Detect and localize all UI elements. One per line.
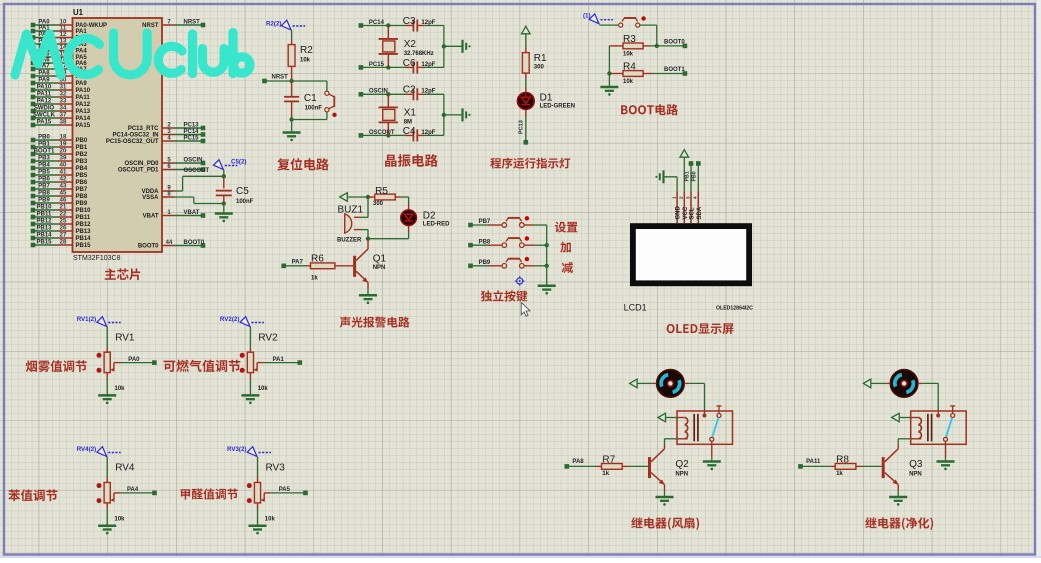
svg-text:44: 44 [166, 240, 173, 246]
wire net PA1 [264, 357, 302, 365]
svg-text:BOOT0: BOOT0 [138, 244, 159, 250]
wire emitter to ground [664, 485, 666, 497]
svg-text:NPN: NPN [909, 471, 922, 477]
svg-text:11: 11 [60, 26, 67, 32]
potentiometer RV1 10k [97, 327, 135, 395]
svg-text:LCD1: LCD1 [624, 303, 647, 313]
svg-text:10k: 10k [300, 58, 311, 64]
wire buttons common [545, 225, 549, 286]
svg-text:34: 34 [60, 106, 67, 112]
svg-text:2: 2 [679, 196, 684, 199]
label 可燃气值调节 [164, 360, 241, 372]
wire net PB9 [468, 260, 491, 268]
node NRST [262, 75, 327, 84]
svg-text:10k: 10k [258, 386, 269, 392]
wire to ground [291, 120, 293, 133]
svg-text:SDA: SDA [697, 206, 703, 219]
U1 right pin OSCOUT_PD1 (6) net OSCOUT [118, 164, 210, 174]
wire net PB8 to U1 pin 45 [31, 191, 88, 201]
svg-text:U1: U1 [73, 8, 84, 17]
LCD1 pin 3 SCL [685, 192, 695, 224]
svg-text:GND: GND [676, 206, 682, 220]
svg-text:PA7: PA7 [292, 259, 304, 265]
transistor Q3 NPN [882, 449, 923, 485]
wire net PB1 to U1 pin 19 [31, 142, 88, 152]
U1 right pin PC15-OSC32_OUT (4) net PC15 [106, 135, 205, 145]
wire VCC [683, 157, 685, 191]
svg-text:39: 39 [60, 156, 67, 162]
label 烟雾值调节 [26, 360, 87, 372]
svg-text:10k: 10k [623, 52, 634, 58]
svg-text:BUZ1: BUZ1 [338, 205, 364, 216]
svg-text:PA1: PA1 [273, 357, 285, 363]
push button PB9 [488, 257, 547, 268]
LCD1 pin 1 GND [672, 192, 682, 224]
buzzer BUZ1 [337, 205, 368, 244]
svg-text:8M: 8M [404, 119, 412, 125]
svg-text:12pF: 12pF [421, 130, 435, 136]
label OLED display [667, 323, 734, 334]
wire R3/R4 common to ground [608, 46, 610, 87]
wire R5 to D2 [408, 197, 410, 210]
wire relay common to ground [711, 441, 713, 461]
label 甲醛值调节 [181, 489, 238, 500]
svg-text:1k: 1k [602, 471, 609, 477]
svg-text:C3: C3 [403, 16, 416, 27]
ground relay [937, 462, 955, 471]
label 苯值调节 [8, 489, 57, 501]
svg-text:20: 20 [60, 149, 67, 155]
relay Q3 contacts [936, 406, 955, 441]
svg-text:C2: C2 [403, 85, 416, 96]
ground Q1 [359, 295, 377, 304]
svg-text:R8: R8 [836, 454, 849, 465]
svg-text:PA8: PA8 [38, 71, 50, 77]
svg-text:SWCLK: SWCLK [33, 113, 56, 119]
svg-text:PA4: PA4 [127, 487, 139, 493]
svg-text:10k: 10k [265, 516, 276, 522]
svg-text:PB0: PB0 [692, 171, 698, 181]
svg-text:PB8: PB8 [76, 194, 88, 200]
wire net PB13 to U1 pin 26 [31, 226, 91, 236]
svg-text:42: 42 [60, 177, 67, 183]
power arrow alarm [340, 193, 348, 202]
svg-text:(1): (1) [583, 13, 591, 20]
wire net PA4 to U1 pin 14 [31, 45, 88, 55]
svg-text:PB7: PB7 [38, 184, 50, 190]
capacitor C6 12pF [403, 58, 444, 74]
svg-text:PA9: PA9 [38, 78, 50, 84]
svg-text:100nF: 100nF [236, 199, 254, 205]
wire net PB8 [468, 239, 491, 247]
label reset circuit [277, 158, 329, 170]
svg-text:PB1: PB1 [684, 171, 690, 181]
svg-text:OLED12864I2C: OLED12864I2C [716, 306, 753, 312]
svg-text:Q3: Q3 [909, 459, 923, 470]
wire D1 to PC13 [518, 110, 528, 145]
wire net PB3 to U1 pin 39 [31, 156, 88, 166]
wire coil to collector [898, 439, 921, 449]
wire net PA0 to U1 pin 10 [31, 20, 107, 30]
capacitor C3 12pF [403, 16, 444, 32]
svg-text:OSCOUT_PD1: OSCOUT_PD1 [118, 168, 159, 174]
svg-text:NRST: NRST [184, 19, 201, 25]
svg-text:PB4: PB4 [76, 166, 88, 172]
svg-text:46: 46 [60, 198, 67, 204]
svg-text:RV1(2): RV1(2) [77, 316, 97, 323]
watermark MCUclub [15, 33, 250, 76]
svg-text:BOOT0: BOOT0 [184, 240, 205, 246]
wire buzzer top to R5 [367, 197, 369, 217]
svg-text:13: 13 [60, 39, 67, 45]
wire net PA10 to U1 pin 31 [31, 85, 91, 95]
wire net OSCOUT [359, 130, 405, 138]
svg-text:PC13: PC13 [518, 120, 524, 134]
wire net PB0 SDA [692, 161, 701, 191]
svg-text:45: 45 [60, 191, 67, 197]
crystal X1 [379, 94, 417, 135]
transistor Q2 NPN [648, 449, 689, 485]
wire D2 to collector node [368, 226, 409, 239]
svg-text:21: 21 [60, 205, 67, 211]
ground reset [283, 133, 301, 142]
wire caps common X1 [442, 94, 463, 135]
svg-text:PB15: PB15 [76, 243, 92, 249]
fan motor Q2 [657, 370, 685, 398]
wire button to BOOT0 node [640, 25, 657, 46]
svg-text:R7: R7 [602, 454, 615, 465]
relay Q2 coil [685, 414, 698, 441]
svg-text:1k: 1k [311, 276, 318, 282]
svg-text:40: 40 [60, 163, 67, 169]
LED D2 LED-RED [401, 210, 450, 227]
svg-text:PC13_RTC: PC13_RTC [128, 126, 159, 132]
ground RV2 [241, 395, 259, 404]
ground Q3 [889, 497, 907, 506]
svg-text:RV4(2): RV4(2) [77, 446, 97, 453]
power arrow relay coil [658, 413, 666, 422]
svg-text:22: 22 [60, 212, 67, 218]
svg-text:R2(2): R2(2) [266, 20, 281, 27]
wire net PC14 [359, 20, 405, 28]
U1 right pin VBAT (1) net VBAT [143, 210, 206, 220]
wire caps common X2 [442, 26, 463, 68]
svg-text:27: 27 [60, 233, 67, 239]
wire net SWCLK to U1 pin 37 [31, 113, 91, 123]
origin marker [515, 276, 525, 286]
svg-text:R4: R4 [623, 62, 636, 73]
svg-text:Q1: Q1 [373, 254, 387, 265]
svg-text:38: 38 [60, 120, 67, 126]
ground Q2 [656, 497, 674, 506]
svg-text:1k: 1k [836, 471, 843, 477]
wire fan to relay contact [684, 383, 704, 413]
svg-text:OSCIN_PD0: OSCIN_PD0 [124, 161, 159, 167]
svg-text:300: 300 [534, 65, 545, 71]
svg-text:PB13: PB13 [76, 229, 92, 235]
capacitor C1 [284, 81, 322, 120]
relay Q2 contacts [703, 406, 722, 441]
svg-text:R5: R5 [375, 186, 388, 197]
svg-text:VBAT: VBAT [143, 214, 159, 220]
svg-text:PC14: PC14 [184, 129, 200, 135]
svg-text:BUZZER: BUZZER [337, 237, 362, 243]
svg-text:PB6: PB6 [76, 180, 88, 186]
wire net PA5 to U1 pin 15 [31, 52, 88, 62]
LED D1 LED-GREEN [517, 93, 575, 110]
wire emitter to ground [897, 485, 899, 497]
label 继电器(净化) [865, 517, 933, 530]
push button PB8 [488, 236, 547, 247]
svg-text:NRST: NRST [142, 23, 159, 29]
wire net PB7 [468, 219, 491, 227]
svg-text:SCL: SCL [690, 207, 696, 219]
power flag RV2(2) [220, 316, 264, 326]
wire net PB1 SCL [684, 161, 693, 191]
svg-text:Q2: Q2 [675, 459, 689, 470]
svg-text:D2: D2 [423, 211, 436, 222]
svg-text:PB4: PB4 [38, 163, 50, 169]
svg-text:10k: 10k [115, 516, 126, 522]
svg-text:100nF: 100nF [305, 106, 323, 112]
LCD1 pin 4 SDA [693, 192, 703, 224]
wire net PA2 to U1 pin 12 [31, 32, 88, 42]
push button PB7 [488, 216, 547, 227]
junction R5/buzzer [366, 195, 370, 199]
label 继电器(风扇) [631, 517, 699, 530]
svg-text:X1: X1 [404, 107, 417, 118]
wire power to R2 [291, 31, 293, 41]
svg-text:PC15-OSC32_OUT: PC15-OSC32_OUT [106, 139, 159, 145]
wire net PA7 to U1 pin 17 [31, 64, 88, 74]
svg-text:25: 25 [60, 219, 67, 225]
label independent keys [481, 290, 528, 301]
svg-text:PB6: PB6 [38, 177, 50, 183]
label crystal circuit [385, 154, 438, 167]
svg-text:BOOT1: BOOT1 [664, 67, 685, 73]
svg-text:PA10: PA10 [76, 88, 91, 94]
svg-text:PA15: PA15 [76, 123, 91, 129]
label main chip [105, 268, 141, 280]
svg-text:PB11: PB11 [37, 212, 52, 218]
svg-text:18: 18 [60, 135, 67, 141]
svg-text:PB10: PB10 [36, 205, 52, 211]
svg-text:PB3: PB3 [38, 156, 50, 162]
svg-text:PB12: PB12 [76, 222, 92, 228]
wire net PA11 to U1 pin 32 [31, 92, 91, 102]
potentiometer RV2 10k [240, 327, 278, 395]
relay Q3 body [911, 411, 967, 444]
label 加 [560, 242, 571, 253]
svg-text:PB2: PB2 [76, 152, 88, 158]
ground crystal X1 [463, 108, 471, 121]
wire net BOOT0 [657, 40, 687, 49]
resistor R4 10k [607, 62, 687, 86]
wire VDDA to C5 top [175, 174, 227, 191]
svg-text:NRST: NRST [272, 75, 289, 81]
wire to R1 [525, 34, 527, 48]
svg-text:33: 33 [60, 99, 67, 105]
wire net PB10 to U1 pin 21 [31, 205, 91, 215]
svg-text:32.768KHz: 32.768KHz [404, 51, 434, 57]
power arrow VCC [522, 26, 531, 34]
power arrow fan [630, 379, 638, 388]
power flag R2(2) [266, 20, 305, 30]
junction collector node [366, 237, 370, 241]
U1 right pin BOOT0 (44) net BOOT0 [138, 240, 205, 250]
wire coil to collector [665, 439, 688, 449]
svg-text:PA14: PA14 [76, 116, 91, 122]
boot jumper button [619, 16, 646, 27]
svg-text:PB0: PB0 [76, 138, 88, 144]
svg-text:PC14: PC14 [369, 20, 385, 26]
U1 right pin PC14-OSC32_IN (3) net PC14 [112, 129, 205, 139]
power flag RV4(2) [77, 446, 121, 456]
svg-text:VCC: VCC [683, 206, 689, 219]
wire net PA6 to U1 pin 16 [31, 58, 88, 67]
power flag (1) [583, 13, 613, 24]
svg-text:300: 300 [373, 201, 384, 207]
svg-text:PB10: PB10 [76, 208, 92, 214]
svg-text:SWDIO: SWDIO [34, 106, 55, 112]
resistor R6 1k [281, 254, 353, 282]
potentiometer RV3 10k [247, 457, 285, 526]
svg-text:PC13: PC13 [184, 122, 200, 128]
label 设置 [555, 222, 578, 233]
svg-text:41: 41 [60, 170, 67, 176]
resistor R1 [522, 48, 547, 93]
svg-text:RV4: RV4 [115, 463, 135, 474]
svg-text:PB1: PB1 [76, 145, 88, 151]
svg-text:PA4: PA4 [76, 49, 88, 55]
wire fan to relay contact [918, 383, 938, 413]
svg-text:PB8: PB8 [38, 191, 50, 197]
relay Q3 coil [918, 414, 931, 441]
svg-text:C4: C4 [403, 126, 416, 137]
wire power to fan [637, 382, 657, 384]
wire power to fan [871, 382, 891, 384]
svg-text:PB15: PB15 [36, 240, 52, 246]
svg-text:26: 26 [60, 226, 67, 232]
resistor R5 300 [368, 186, 409, 207]
power arrow relay coil [892, 413, 900, 422]
resistor R2 [288, 41, 313, 82]
power arrow fan [863, 379, 871, 388]
capacitor C5 [216, 176, 254, 205]
svg-text:PA13: PA13 [76, 109, 91, 115]
capacitor C2 12pF [403, 85, 444, 101]
label 减 [562, 262, 573, 273]
crystal X2 [379, 26, 434, 68]
ground RV4 [98, 526, 116, 535]
svg-text:19: 19 [60, 142, 67, 148]
right margin strip [1037, 0, 1041, 558]
svg-text:3: 3 [685, 196, 690, 199]
wire power to coil [666, 417, 685, 419]
svg-text:PC15: PC15 [184, 135, 200, 141]
wire power to R5 node [347, 196, 368, 198]
svg-text:43: 43 [60, 184, 67, 190]
svg-text:PB13: PB13 [36, 226, 52, 232]
svg-text:37: 37 [60, 113, 67, 119]
svg-text:12pF: 12pF [421, 62, 435, 68]
U1 right pin OSCIN_PD0 (5) net OSCIN [124, 157, 205, 167]
svg-text:PA9: PA9 [76, 81, 88, 87]
wire relay common to ground [945, 441, 947, 461]
svg-text:STM32F103C8: STM32F103C8 [73, 255, 121, 262]
svg-text:PC14-OSC32_IN: PC14-OSC32_IN [112, 133, 158, 139]
svg-text:PA15: PA15 [37, 120, 52, 126]
wire power to boot button [600, 24, 619, 26]
wire net PA0 [121, 357, 157, 365]
svg-text:R1: R1 [534, 53, 547, 64]
power flag RV3(2) [227, 446, 271, 456]
LCD1 pin 2 VCC [679, 192, 689, 224]
ground OLED [655, 170, 663, 183]
svg-text:BOOT0: BOOT0 [664, 40, 685, 46]
svg-text:PB14: PB14 [76, 236, 92, 242]
svg-text:PB11: PB11 [76, 215, 91, 221]
svg-text:RV3(2): RV3(2) [227, 446, 247, 453]
wire net PB4 to U1 pin 40 [31, 163, 88, 173]
svg-text:PA5: PA5 [279, 487, 291, 493]
svg-text:PB1: PB1 [38, 142, 50, 148]
wire net PA9 to U1 pin 30 [31, 78, 88, 88]
svg-text:10k: 10k [623, 79, 634, 85]
svg-text:PA10: PA10 [37, 85, 52, 91]
ground buttons [538, 286, 556, 295]
svg-text:PA12: PA12 [76, 102, 91, 108]
svg-text:BOOT1: BOOT1 [34, 149, 55, 155]
svg-text:PA11: PA11 [76, 95, 91, 101]
power arrow OLED VCC [680, 150, 689, 158]
wire net PA12 to U1 pin 33 [31, 99, 91, 109]
ground RV3 [249, 526, 267, 535]
wire net PA1 to U1 pin 11 [31, 26, 88, 36]
label BOOT circuit [621, 104, 678, 115]
svg-text:VSSA: VSSA [142, 195, 159, 201]
wire net SWDIO to U1 pin 34 [31, 106, 91, 116]
potentiometer RV4 10k [97, 457, 135, 526]
svg-text:RV2(2): RV2(2) [220, 316, 240, 323]
display LCD1 OLED panel [630, 223, 752, 286]
svg-text:PA12: PA12 [37, 99, 52, 105]
junction C1 bottom [289, 117, 293, 121]
svg-text:LED-RED: LED-RED [423, 221, 450, 227]
wire net PB12 to U1 pin 25 [31, 219, 91, 229]
svg-text:OSCOUT: OSCOUT [184, 168, 210, 174]
wire net OSCIN [359, 89, 405, 97]
wire net PB5 to U1 pin 41 [31, 170, 88, 180]
wire OLED GND [664, 177, 678, 192]
svg-text:PB5: PB5 [38, 170, 50, 176]
svg-text:PA11: PA11 [37, 92, 52, 98]
wire net PA5 [271, 487, 308, 495]
svg-text:PB5: PB5 [76, 173, 88, 179]
label alarm circuit [340, 317, 410, 328]
transistor Q1 NPN [353, 239, 386, 283]
U1 right pin VDDA (9) [141, 185, 174, 195]
svg-text:D1: D1 [540, 93, 553, 104]
bottom margin strip [0, 556, 1041, 558]
mouse cursor [521, 302, 530, 316]
power flag C5(2) [214, 159, 247, 177]
svg-text:12pF: 12pF [421, 89, 435, 95]
svg-text:C6: C6 [403, 58, 416, 69]
svg-text:NPN: NPN [373, 265, 386, 271]
wire net PA15 to U1 pin 38 [31, 120, 91, 130]
resistor R8 1k [798, 454, 882, 477]
